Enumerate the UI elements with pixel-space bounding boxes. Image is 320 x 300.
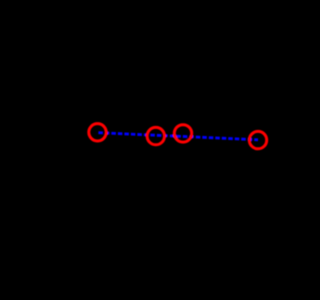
data point marker 2 — [147, 127, 164, 144]
data point marker 3 — [174, 125, 191, 142]
data point marker 4 — [249, 131, 266, 148]
dashed trend line — [98, 133, 258, 140]
data point marker 1 — [89, 124, 106, 141]
